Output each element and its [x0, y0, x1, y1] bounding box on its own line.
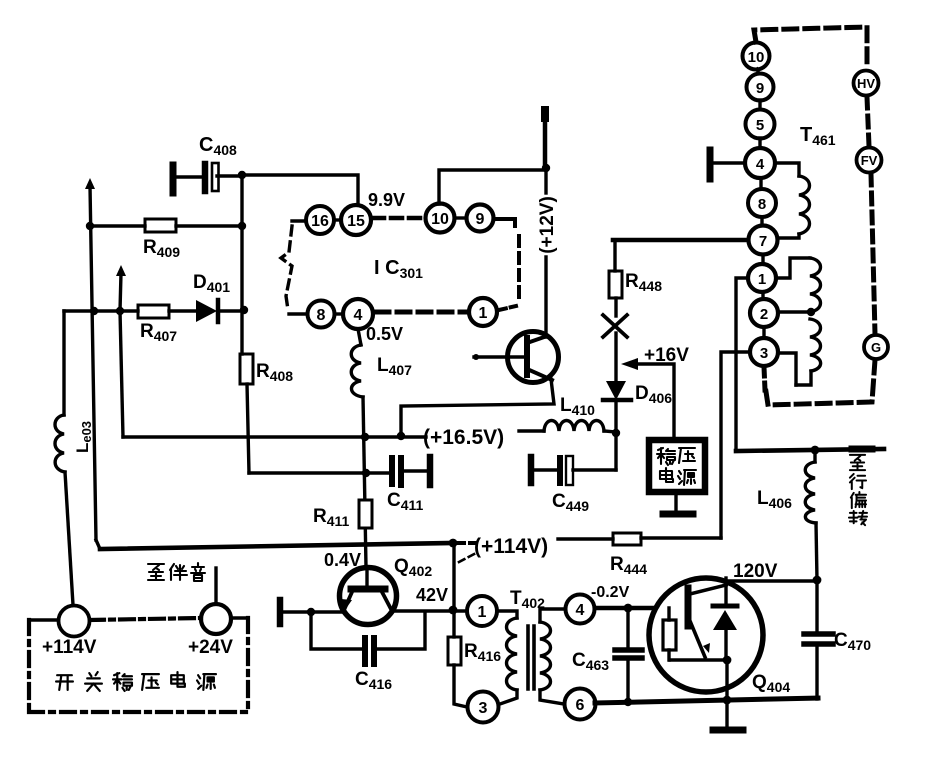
capacitor C463: [572, 608, 642, 700]
wire +12V stub top: [439, 110, 546, 204]
wire pin7 rail: [613, 238, 749, 243]
node emitter junction: [723, 656, 732, 665]
node emitter at rail: [723, 696, 732, 705]
transistor driver NPN: [473, 332, 559, 383]
capacitor C449: [531, 456, 616, 514]
wire 42V to R416: [452, 610, 455, 637]
node Q402 base-left: [307, 608, 315, 616]
node L407 at +16.5V rail: [361, 433, 369, 441]
HV terminal: [854, 71, 879, 96]
svg-text:10: 10: [431, 211, 449, 228]
svg-text:HV: HV: [857, 76, 875, 91]
svg-text:0.4V: 0.4V: [324, 550, 361, 570]
node R409 right: [238, 222, 246, 230]
T461 pin 10: [743, 43, 770, 70]
FV terminal: [857, 148, 882, 173]
svg-text:0.5V: 0.5V: [366, 324, 403, 344]
svg-text:FV: FV: [861, 153, 878, 168]
svg-text:9.9V: 9.9V: [368, 190, 405, 210]
svg-text:4: 4: [576, 602, 585, 619]
T402 pin 6: [565, 689, 596, 720]
svg-text:(+114V): (+114V): [474, 535, 548, 558]
terminal bar left of Q402: [280, 600, 341, 624]
svg-text:3: 3: [479, 700, 488, 717]
X mark: [603, 315, 627, 337]
wire pin9 to dashed corner: [494, 219, 515, 226]
svg-text:5: 5: [756, 117, 764, 134]
resistor R448: [609, 271, 662, 316]
wire left vertical with up arrow: [85, 178, 96, 540]
svg-text:+114V: +114V: [42, 637, 97, 658]
T402 pin 1: [467, 596, 497, 626]
inductor L406: [757, 450, 817, 580]
node at C408 output: [238, 171, 246, 179]
svg-text:10: 10: [748, 49, 765, 66]
T461 pin 2: [750, 292, 778, 327]
node +12V: [542, 164, 550, 172]
label 至伴音: [148, 563, 205, 581]
svg-text:9: 9: [476, 211, 485, 228]
svg-text:8: 8: [758, 196, 766, 213]
wire pin3 down to +114V line: [721, 352, 750, 538]
wire pin4 to Q404 base: [595, 606, 655, 611]
+16V annotation arrow: [621, 345, 689, 436]
pin 8: [289, 301, 335, 328]
IC301 dashed outline right: [517, 236, 521, 302]
winding pin1 to pin2: [776, 258, 821, 316]
node at C411 row: [362, 469, 370, 477]
inductor L410: [519, 395, 616, 432]
svg-text:1: 1: [478, 604, 487, 621]
T461 pin 1: [748, 255, 776, 292]
pin 15: [334, 205, 371, 235]
svg-text:+24V: +24V: [188, 637, 233, 658]
resistor R411: [313, 500, 372, 529]
pin 4: [335, 299, 373, 329]
dashed HV to FV: [867, 97, 869, 146]
terminal +24V: [188, 604, 233, 658]
T402 pin 4: [566, 595, 595, 624]
inductor Le03: [55, 311, 94, 605]
wire bottom rail: [595, 698, 818, 703]
pin 9: [455, 205, 494, 232]
resistor R408: [240, 354, 293, 473]
node emitter at rail: [397, 432, 405, 440]
diode D406: [603, 333, 672, 433]
pin 1: [469, 298, 516, 326]
wire 42V branch vertical: [454, 543, 478, 610]
resistor R409: [90, 219, 242, 260]
pin 16: [292, 206, 334, 234]
node 42V branch: [449, 539, 458, 548]
terminal +114V: [42, 606, 97, 659]
svg-text:(+16.5V): (+16.5V): [423, 426, 504, 449]
svg-text:15: 15: [347, 213, 365, 230]
winding pin2 to pin3: [778, 319, 821, 385]
dashed G to corner and bottom: [765, 360, 875, 405]
svg-text:+16V: +16V: [644, 345, 689, 366]
dashed wire pin4 to pin1: [376, 310, 466, 315]
svg-text:4: 4: [756, 156, 765, 173]
svg-text:1: 1: [758, 271, 766, 288]
svg-text:(+12V): (+12V): [537, 196, 558, 254]
transformer T402 primary: [497, 611, 517, 704]
resistor R444: [558, 533, 721, 577]
wire L407 to R411 to Q402: [363, 397, 366, 567]
svg-text:7: 7: [759, 233, 767, 250]
T461 pin 4: [745, 138, 775, 178]
svg-text:3: 3: [760, 345, 768, 362]
transformer T402 secondary: [540, 609, 565, 704]
svg-text:120V: 120V: [733, 561, 778, 582]
node L410 right: [612, 429, 620, 437]
T461 pin 7: [749, 217, 778, 255]
wire R448 from pin7 rail: [613, 242, 616, 271]
wire Q404 emitter to rail and ground: [725, 660, 728, 726]
regulator box 稳压电源: [649, 440, 705, 492]
ground below regulator: [663, 492, 693, 514]
pin 10: [426, 204, 455, 233]
node R407 row arrow base: [116, 307, 124, 315]
node R407 row left: [90, 307, 98, 315]
wire end bold segment: [852, 446, 872, 453]
node C463 bottom: [624, 698, 632, 706]
resistor R416: [448, 637, 501, 707]
T461 pin 5: [746, 100, 775, 139]
T461 pin 3: [750, 327, 778, 366]
T402 pin 3: [468, 692, 499, 723]
svg-text:4: 4: [354, 307, 363, 324]
wire up arrow at R407: [116, 265, 126, 311]
svg-text:-0.2V: -0.2V: [591, 584, 630, 601]
transistor Q404: [649, 578, 790, 695]
terminal bar at pin 4: [710, 150, 745, 179]
label (+12V): [537, 168, 558, 337]
wire arrow line down to +16.5V rail: [120, 311, 123, 437]
resistor R407: [138, 305, 196, 344]
capacitor C470: [804, 580, 871, 699]
switching supply dash-dot box: [29, 618, 248, 712]
diode D401: [193, 272, 244, 322]
svg-text:1: 1: [479, 305, 488, 322]
dashed FV to G: [871, 174, 875, 334]
wire pin1 down to deflection rail: [736, 278, 748, 451]
wire Q402 emitter to pin1 T402: [392, 609, 467, 612]
wire +16.5V rail: [123, 435, 426, 438]
transistor Q402: [340, 568, 397, 625]
node 120V at C470: [813, 576, 822, 585]
wire emitter branch of driver: [401, 379, 554, 436]
wire D406 branch vertical: [614, 433, 617, 470]
svg-text:6: 6: [576, 697, 585, 714]
svg-text:16: 16: [311, 213, 329, 230]
wire stub below 至伴音: [214, 568, 217, 603]
node L406 top: [811, 446, 820, 455]
dashed yoke loop top: [754, 27, 867, 68]
wire vertical bus from C408 down to R408: [240, 175, 243, 354]
svg-text:42V: 42V: [416, 585, 448, 605]
T461 pin 8: [748, 178, 776, 217]
node 42V: [449, 606, 458, 615]
svg-text:8: 8: [317, 307, 326, 324]
node C463 top: [624, 604, 633, 613]
wire left rail corner: [96, 540, 100, 549]
svg-text:2: 2: [760, 306, 768, 323]
inductor L407: [351, 329, 412, 397]
IC301 dashed outline left: [281, 226, 292, 310]
wire deflection rail: [736, 449, 884, 451]
wire 120V line: [726, 579, 817, 582]
label 至行偏转: [849, 455, 867, 525]
label 开关稳压电源: [56, 672, 216, 691]
wire C408 to pin15 of IC301: [242, 175, 358, 205]
svg-text:G: G: [871, 340, 881, 355]
capacitor C411: [249, 457, 430, 513]
node D401 cathode: [240, 306, 248, 314]
T461 pin 9: [747, 69, 774, 101]
wire R407 row: [64, 309, 138, 312]
ground below Q404: [713, 727, 743, 734]
winding pin4 to pin7: [775, 163, 810, 238]
capacitor C408: [173, 134, 242, 193]
dashed wire pin15 to pin10: [373, 216, 424, 221]
svg-text:9: 9: [756, 80, 764, 97]
capacitor C416: [311, 612, 425, 692]
node R409 left: [86, 222, 94, 230]
wire +114V rail: [100, 543, 475, 549]
G terminal: [864, 335, 888, 359]
transformer T402 core: [528, 626, 534, 689]
dashed below pin3: [764, 367, 765, 390]
